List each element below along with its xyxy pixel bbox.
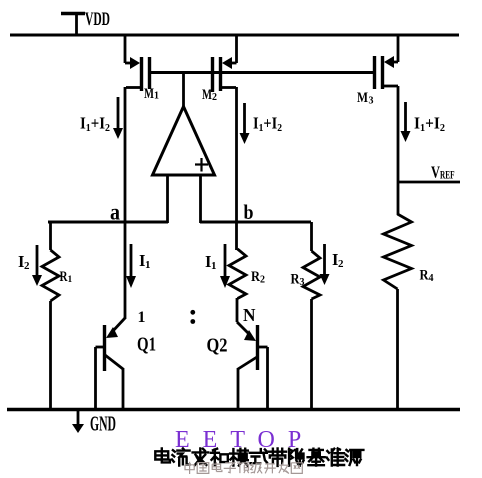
svg-text:1: 1 [138,309,146,326]
svg-text:1: 1 [154,91,159,102]
transistor M2 [213,34,237,92]
svg-text:VDD: VDD [85,9,110,30]
svg-text:GND: GND [90,412,116,436]
wire M1 drain down through node a to Q1 [124,87,127,319]
svg-text:4: 4 [429,273,434,284]
svg-text:R: R [251,269,260,285]
svg-text:R: R [291,272,300,288]
svg-text:1: 1 [145,259,151,271]
svg-text:N: N [243,305,256,325]
svg-text:Q1: Q1 [137,335,156,356]
current arrow I2 far left [32,245,42,286]
ground symbol [72,411,84,433]
wire VREF output [397,181,460,184]
svg-text:Q2: Q2 [207,336,228,357]
current arrow I1+I2 middle (M2 drain) [240,103,250,144]
svg-text:3: 3 [369,96,374,107]
wire node a horizontal [48,221,168,224]
svg-text:2: 2 [212,92,217,103]
resistor R1 [42,222,59,410]
svg-text:2: 2 [24,260,30,272]
resistor R3 [303,222,320,410]
current arrow I1+I2 left (M1 drain) [113,97,123,139]
wire gate bus M1-M2-M3 [150,71,374,74]
wire M3 drain down to R4 [397,86,400,215]
resistor R4 [384,214,412,410]
watermark 中国电子顶级开发网 (hand-drawn strokes) [185,462,302,474]
caption 电流求和模式带隙基准源 (hand-drawn strokes) [155,448,363,466]
svg-text:I1+I2: I1+I2 [414,114,445,135]
wire op-amp right input to node b [199,175,202,223]
wire node b horizontal [200,221,311,224]
transistor M1 [125,34,150,91]
svg-text:M: M [144,86,154,102]
current arrow I2 right [320,244,330,285]
svg-text:M: M [357,90,368,106]
svg-text:1: 1 [68,275,73,285]
wire M2 drain down through node b to R2 [235,87,238,250]
wire op-amp left input to node a [166,175,169,223]
wire GND rail [7,408,460,411]
current arrow I1+I2 right (M3 drain) [401,102,411,142]
svg-text:2: 2 [338,258,344,270]
svg-text:I1+I2: I1+I2 [253,114,282,135]
current arrow I1 right middle [220,244,230,288]
svg-text:REF: REF [440,170,455,182]
transistor M3 [375,34,399,89]
VDD power symbol [61,13,85,35]
svg-text:M: M [202,87,212,103]
ratio label : [190,310,195,324]
svg-text:I1+I2: I1+I2 [80,114,110,135]
svg-text:R: R [420,268,429,284]
resistor R2 [229,249,246,299]
svg-text:3: 3 [300,277,305,288]
svg-text:R: R [60,269,68,285]
wire VDD rail [10,34,459,37]
op-amp U1 [153,72,215,175]
transistor Q1 [96,318,126,410]
transistor Q2 [237,298,268,410]
current arrow I1 left middle [126,244,136,288]
svg-text:1: 1 [211,260,217,272]
svg-text:2: 2 [260,275,265,286]
svg-text:b: b [244,200,254,224]
svg-text:a: a [110,200,120,225]
